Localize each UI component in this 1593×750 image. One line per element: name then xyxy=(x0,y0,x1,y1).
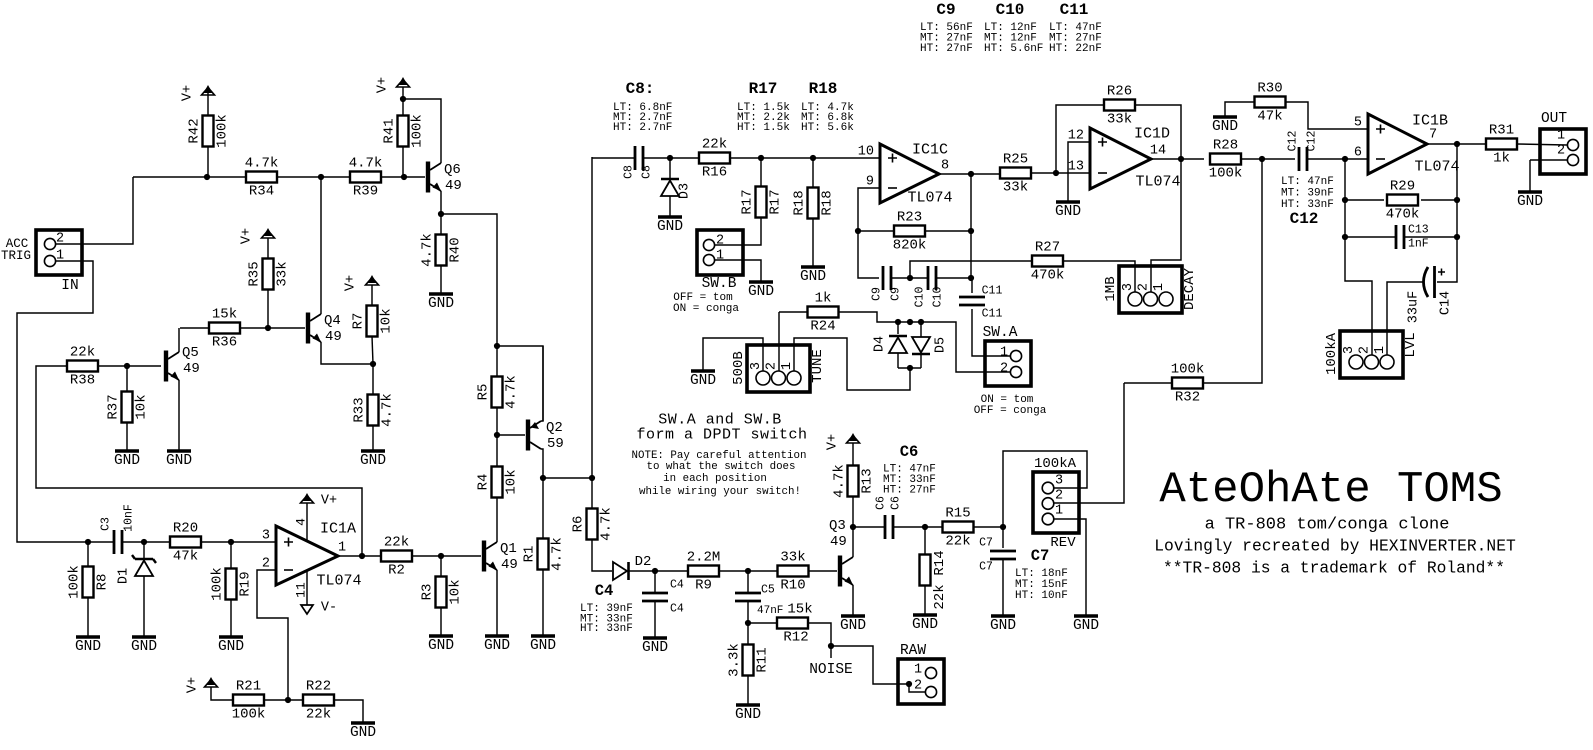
svg-text:REV: REV xyxy=(1050,535,1076,551)
wire R35 to Q4 base node xyxy=(267,289,269,328)
svg-text:1: 1 xyxy=(338,541,346,556)
wire R16 to node xyxy=(730,157,761,159)
capacitor C5 xyxy=(735,593,761,601)
diode D1 xyxy=(132,555,156,576)
svg-text:TL074: TL074 xyxy=(316,573,361,590)
svg-text:2: 2 xyxy=(716,234,724,249)
svg-text:R37: R37 xyxy=(106,394,122,419)
label C11 bottom xyxy=(982,308,1003,321)
svg-text:100k: 100k xyxy=(1171,362,1205,378)
resistor R21 xyxy=(232,679,266,723)
junction xyxy=(968,228,974,234)
wire out down xyxy=(1456,144,1458,200)
V+ supply xyxy=(376,77,410,93)
wire R36 to Q4 base xyxy=(240,327,305,329)
svg-text:4.7k: 4.7k xyxy=(420,233,436,267)
junction xyxy=(922,524,928,530)
resistor R32 xyxy=(1171,362,1205,406)
svg-text:100k: 100k xyxy=(215,114,231,148)
resistor R1 xyxy=(522,537,566,571)
junction xyxy=(1342,156,1348,162)
svg-text:4.7k: 4.7k xyxy=(599,507,615,541)
V+ supply xyxy=(181,85,215,101)
wire V+ pin4 xyxy=(306,503,308,541)
svg-text:to what the switch does: to what the switch does xyxy=(646,461,795,473)
resistor R6 xyxy=(571,507,615,541)
wire node to C12 xyxy=(1262,158,1295,160)
svg-text:4.7k: 4.7k xyxy=(380,393,396,427)
svg-text:AteOhAte TOMS: AteOhAte TOMS xyxy=(1159,465,1502,515)
wire IN pin1 to C3 node xyxy=(17,261,93,542)
svg-text:GND: GND xyxy=(912,617,938,633)
wire Q1 emitter to ground xyxy=(496,570,498,636)
junction xyxy=(370,361,376,367)
svg-text:V+: V+ xyxy=(344,275,359,291)
svg-text:Q6: Q6 xyxy=(444,162,461,178)
svg-text:IC1D: IC1D xyxy=(1134,126,1170,143)
wire to RAW pin2 circle xyxy=(909,684,925,692)
value table C9 xyxy=(920,1,973,55)
junction xyxy=(907,275,913,281)
wire R31 to OUT pin1 xyxy=(1517,144,1567,145)
wire R22 to ground xyxy=(334,700,363,723)
junction xyxy=(438,211,444,217)
wire to R40 xyxy=(440,214,442,235)
svg-text:47k: 47k xyxy=(173,549,198,565)
wire node to R33 xyxy=(372,364,374,395)
potentiometer DECAY xyxy=(1103,266,1198,313)
wire V+ to R35 xyxy=(267,238,269,259)
label REV xyxy=(1050,535,1076,551)
pin 1 REV xyxy=(1055,504,1063,519)
label 100kA REV xyxy=(1034,456,1077,472)
wire node to R3 xyxy=(440,556,442,577)
wire R28 to node xyxy=(1241,158,1262,160)
svg-text:100kA: 100kA xyxy=(1324,332,1340,375)
wire C9 to C10 xyxy=(891,277,928,279)
svg-text:R29: R29 xyxy=(1390,179,1415,195)
junction xyxy=(285,697,291,703)
wire R33 to ground xyxy=(372,426,374,451)
svg-text:C3: C3 xyxy=(100,517,113,531)
wire out to DECAY pin2 xyxy=(1151,159,1181,292)
wire node to C6 xyxy=(853,526,885,528)
wire Q1 collector to R4 xyxy=(496,497,498,542)
label D3 xyxy=(678,183,693,199)
wire R13 to node xyxy=(852,497,854,527)
wire xyxy=(277,176,350,178)
potentiometer TUNE xyxy=(731,345,826,392)
svg-text:2: 2 xyxy=(765,362,780,370)
wire R14 to ground xyxy=(924,586,926,615)
junction xyxy=(745,568,751,574)
svg-text:C14: C14 xyxy=(1439,291,1454,315)
junction xyxy=(318,174,324,180)
label C11 top xyxy=(982,285,1003,298)
wire Q6 emitter to node xyxy=(441,214,497,346)
svg-text:R22: R22 xyxy=(306,679,331,695)
ground Q5 xyxy=(166,451,192,469)
diode D3 xyxy=(661,179,679,196)
svg-text:GND: GND xyxy=(428,638,454,654)
op-amp IC1C xyxy=(858,142,953,207)
svg-text:**TR-808 is a trademark of Rol: **TR-808 is a trademark of Roland** xyxy=(1163,559,1505,578)
svg-text:2: 2 xyxy=(1137,283,1152,291)
junction xyxy=(589,475,595,481)
svg-text:R15: R15 xyxy=(945,506,970,522)
svg-text:R18: R18 xyxy=(809,80,838,98)
junction xyxy=(745,620,751,626)
op-amp IC1D xyxy=(1068,126,1181,191)
ground C4 xyxy=(642,638,668,656)
wire node to R18 xyxy=(812,158,814,188)
wire ground to R30 xyxy=(1225,102,1255,117)
wire D3 to ground xyxy=(669,196,671,217)
svg-text:GND: GND xyxy=(131,639,157,655)
svg-text:14: 14 xyxy=(1150,144,1166,159)
wire C6 to node xyxy=(893,526,925,528)
wire node to R9 xyxy=(655,570,688,572)
wire R2 to node xyxy=(412,555,439,557)
svg-text:GND: GND xyxy=(748,284,774,300)
svg-text:100kA: 100kA xyxy=(1034,456,1077,472)
svg-text:500B: 500B xyxy=(731,351,747,385)
label C10 right xyxy=(932,287,945,308)
svg-text:R18: R18 xyxy=(820,190,836,215)
label C14 xyxy=(1439,291,1454,315)
svg-text:15k: 15k xyxy=(787,602,812,618)
capacitor C9 xyxy=(883,266,891,290)
label SW.A on xyxy=(981,394,1034,406)
resistor R15 xyxy=(943,506,974,550)
wire Q5 collector up xyxy=(178,328,180,352)
svg-text:DECAY: DECAY xyxy=(1182,267,1198,310)
wire IC1C- down xyxy=(858,188,880,231)
wire R18 to ground xyxy=(812,219,814,267)
wire R8 to ground xyxy=(87,598,89,637)
svg-text:47k: 47k xyxy=(1257,109,1282,125)
svg-text:HT: 5.6nF: HT: 5.6nF xyxy=(984,43,1043,55)
svg-text:2: 2 xyxy=(262,557,270,572)
wire R10 to Q3 base xyxy=(809,570,837,572)
svg-text:V+: V+ xyxy=(240,228,255,244)
resistor R19 xyxy=(210,567,254,601)
wire SW.B pin1 to ground xyxy=(715,260,761,282)
svg-text:C6: C6 xyxy=(900,443,919,461)
capacitor C3 xyxy=(114,530,122,554)
label C6 right xyxy=(890,496,903,510)
svg-text:TL074: TL074 xyxy=(1135,174,1180,191)
pin 4 IC1A xyxy=(294,518,309,526)
svg-text:9: 9 xyxy=(866,175,874,190)
wire node to TUNE pin1 xyxy=(794,338,910,390)
svg-text:C4: C4 xyxy=(670,579,684,592)
ground R19 xyxy=(218,637,244,655)
ground R18 xyxy=(800,267,826,285)
op-amp IC1A xyxy=(262,521,362,590)
wire REV pin2 to R32 xyxy=(1054,383,1124,503)
wire C3 to node xyxy=(122,541,144,543)
svg-text:820k: 820k xyxy=(893,238,927,254)
svg-text:R41: R41 xyxy=(382,118,398,143)
wire node to RAW pin2 xyxy=(831,646,906,684)
wire node to R27 xyxy=(910,261,1032,278)
wire IC1A- to divider xyxy=(257,570,288,700)
pin 1 IN xyxy=(56,249,64,264)
wire node to IC1D - xyxy=(1056,172,1090,174)
svg-text:R38: R38 xyxy=(70,373,95,389)
svg-text:R42: R42 xyxy=(187,118,203,143)
junction xyxy=(141,539,147,545)
svg-text:D5: D5 xyxy=(934,337,949,353)
svg-text:1k: 1k xyxy=(815,291,832,307)
wire Q4 collector up xyxy=(320,177,322,314)
wire R42 to rail xyxy=(207,146,209,177)
label D2 xyxy=(635,554,652,570)
wire to C3 xyxy=(85,541,114,543)
svg-text:GND: GND xyxy=(75,639,101,655)
wire R32 to node xyxy=(1203,161,1262,383)
ground SW.B xyxy=(748,282,774,300)
transistor Q4 xyxy=(306,313,342,346)
svg-text:1MB: 1MB xyxy=(1103,276,1119,301)
svg-text:R24: R24 xyxy=(810,319,835,335)
svg-text:SW.A: SW.A xyxy=(983,325,1018,341)
svg-text:C6: C6 xyxy=(875,496,888,510)
svg-text:IC1A: IC1A xyxy=(320,521,356,538)
resistor R31 xyxy=(1486,123,1517,167)
svg-text:4: 4 xyxy=(294,518,309,526)
subtitle trademark xyxy=(1163,559,1505,578)
svg-text:HT: 33nF: HT: 33nF xyxy=(580,623,633,635)
wire node to R19 xyxy=(230,542,232,569)
resistor R18 xyxy=(792,188,836,219)
ground R1 xyxy=(530,636,556,654)
svg-text:100k: 100k xyxy=(210,567,226,601)
svg-text:GND: GND xyxy=(360,453,386,469)
svg-text:OUT: OUT xyxy=(1541,111,1567,127)
resistor R8 xyxy=(67,565,111,599)
ground R33 xyxy=(360,451,386,469)
wire node to LVL pin2 xyxy=(1345,159,1372,356)
svg-text:100k: 100k xyxy=(410,114,426,148)
wire xyxy=(133,176,246,178)
svg-text:MT: 39nF: MT: 39nF xyxy=(1281,188,1334,200)
svg-text:C12: C12 xyxy=(1287,131,1300,152)
resistor R39 xyxy=(349,156,383,200)
resistor R24 xyxy=(808,291,839,335)
label C8 right xyxy=(641,165,654,179)
svg-text:4.7k: 4.7k xyxy=(550,537,566,571)
wire node to C13 xyxy=(1345,236,1396,238)
wire V+ to R7 xyxy=(371,285,373,306)
wire R15 to node xyxy=(974,526,1003,528)
wire node to D1 xyxy=(143,542,145,559)
label C9 left xyxy=(871,287,884,301)
junction xyxy=(810,155,816,161)
net label NOISE xyxy=(809,662,853,678)
svg-text:R35: R35 xyxy=(247,261,263,286)
wire C7 to ground xyxy=(1002,559,1004,616)
svg-text:GND: GND xyxy=(218,639,244,655)
wire to D4 xyxy=(897,322,899,334)
wire node to R1 xyxy=(542,478,544,538)
wire OUT pin2 xyxy=(1530,159,1567,161)
svg-text:IC1C: IC1C xyxy=(912,142,948,159)
svg-text:4.7k: 4.7k xyxy=(504,375,520,409)
svg-text:C10: C10 xyxy=(932,287,945,308)
wire node to R17 xyxy=(760,158,762,187)
resistor R38 xyxy=(67,345,98,389)
svg-text:R2: R2 xyxy=(388,563,405,579)
junction xyxy=(1342,197,1348,203)
transistor Q3 xyxy=(829,518,853,587)
potentiometer REV xyxy=(1033,472,1079,533)
wire D5 to node xyxy=(920,354,922,368)
label ACC xyxy=(6,237,29,251)
junction xyxy=(265,325,271,331)
svg-text:12: 12 xyxy=(1068,129,1084,144)
svg-text:R18: R18 xyxy=(792,190,808,215)
pin 2 IN xyxy=(56,232,64,247)
svg-text:4.7k: 4.7k xyxy=(832,464,848,498)
transistor Q5 xyxy=(164,345,200,382)
junction xyxy=(1000,524,1006,530)
resistor R17 xyxy=(740,187,784,218)
svg-text:100k: 100k xyxy=(67,565,83,599)
svg-text:R14: R14 xyxy=(932,550,948,575)
wire out down to C11 xyxy=(970,174,972,278)
wire node to Q2 emitter xyxy=(497,346,543,421)
svg-text:1: 1 xyxy=(716,249,724,264)
wire node to Q6 collector xyxy=(403,99,441,163)
junction xyxy=(540,475,546,481)
wire R17 to SW.B pin2 xyxy=(715,218,761,245)
svg-text:TRIG: TRIG xyxy=(1,249,31,263)
svg-text:22k: 22k xyxy=(70,345,95,361)
wire C14 to LVL pin1 xyxy=(1387,282,1424,356)
junction xyxy=(228,539,234,545)
wire IC1A out xyxy=(338,555,381,557)
svg-text:R17: R17 xyxy=(768,189,784,214)
resistor R27 xyxy=(1031,240,1065,284)
resistor R41 xyxy=(382,114,426,148)
label C7 top xyxy=(979,537,993,550)
svg-text:R11: R11 xyxy=(755,647,771,672)
svg-text:C7: C7 xyxy=(979,537,993,550)
wire node to Q1 base xyxy=(441,555,481,557)
junction xyxy=(401,174,407,180)
ground C7 xyxy=(990,616,1016,634)
svg-text:C8: C8 xyxy=(623,165,636,179)
capacitor C10 xyxy=(928,266,936,290)
svg-text:IC1B: IC1B xyxy=(1412,113,1448,130)
junction xyxy=(359,553,365,559)
svg-text:49: 49 xyxy=(325,329,342,345)
svg-text:3: 3 xyxy=(1055,474,1063,489)
svg-text:3: 3 xyxy=(262,529,270,544)
svg-text:10: 10 xyxy=(858,145,874,160)
wire D4 to node xyxy=(897,353,899,368)
wire R24 to diode node xyxy=(838,312,895,322)
svg-text:C9: C9 xyxy=(871,287,884,301)
svg-text:C10: C10 xyxy=(914,287,927,308)
svg-text:V+: V+ xyxy=(376,77,391,93)
pin 2 OUT xyxy=(1557,144,1565,159)
svg-text:33k: 33k xyxy=(275,261,291,286)
label C3 xyxy=(100,517,113,531)
wire C4 to ground xyxy=(654,601,656,638)
svg-text:GND: GND xyxy=(1212,119,1238,135)
resistor R2 xyxy=(381,535,412,579)
ground R30 xyxy=(1212,117,1238,135)
svg-text:C9: C9 xyxy=(936,1,955,19)
svg-text:NOISE: NOISE xyxy=(809,662,853,678)
svg-text:22k: 22k xyxy=(384,535,409,551)
label C5 xyxy=(761,584,775,597)
svg-text:ON = conga: ON = conga xyxy=(673,303,739,315)
wire C5 to node xyxy=(747,601,749,623)
svg-text:R32: R32 xyxy=(1175,390,1200,406)
label C9 right xyxy=(890,287,903,301)
capacitor C14 xyxy=(1424,266,1446,298)
svg-text:OFF = conga: OFF = conga xyxy=(974,405,1047,417)
wire node to R8 xyxy=(87,542,89,567)
resistor R16 xyxy=(699,137,730,181)
wire Q6 emitter down xyxy=(440,191,442,214)
label 10nF xyxy=(123,504,136,532)
value table C10 xyxy=(984,1,1043,55)
svg-text:HT: 2.7nF: HT: 2.7nF xyxy=(613,122,672,134)
value table R18 xyxy=(801,80,854,134)
svg-text:C5: C5 xyxy=(761,584,775,597)
wire C10 to node xyxy=(936,277,971,279)
capacitor C4 xyxy=(642,593,668,601)
potentiometer LVL xyxy=(1324,331,1419,378)
pin 3 REV xyxy=(1055,474,1063,489)
pin 1 SW.B xyxy=(716,249,724,264)
svg-text:C4: C4 xyxy=(595,582,614,600)
svg-text:7: 7 xyxy=(1429,128,1437,143)
resistor R10 xyxy=(778,550,809,594)
note text wiring xyxy=(632,450,807,498)
svg-text:Q2: Q2 xyxy=(546,420,563,436)
wire node to R12 xyxy=(748,622,777,624)
value table C7 xyxy=(1015,547,1068,602)
wire node to R15 xyxy=(925,526,942,528)
junction xyxy=(204,174,210,180)
svg-text:GND: GND xyxy=(484,638,510,654)
svg-text:R20: R20 xyxy=(173,521,198,537)
wire IN pin2 to rail xyxy=(56,177,133,244)
wire node to R41 xyxy=(402,99,404,116)
svg-text:R30: R30 xyxy=(1257,81,1282,97)
svg-text:GND: GND xyxy=(350,725,376,741)
wire D2 to node xyxy=(629,570,655,572)
svg-text:C9: C9 xyxy=(890,287,903,301)
wire R9 to node xyxy=(719,570,748,572)
wire down to TUNE pin2 xyxy=(778,312,780,371)
ground Q1 xyxy=(484,636,510,654)
resistor R33 xyxy=(352,393,396,427)
resistor R34 xyxy=(245,156,279,200)
svg-text:R19: R19 xyxy=(238,571,254,596)
resistor R29 xyxy=(1386,179,1420,223)
svg-text:GND: GND xyxy=(690,373,716,389)
svg-text:HT: 10nF: HT: 10nF xyxy=(1015,590,1068,602)
junction xyxy=(124,363,130,369)
svg-text:TUNE: TUNE xyxy=(810,349,826,383)
